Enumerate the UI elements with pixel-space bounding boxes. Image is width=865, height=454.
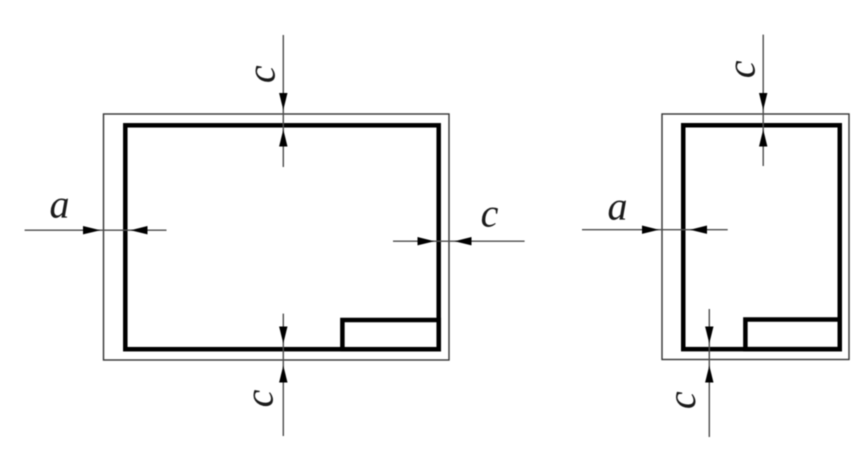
- title block in lower-right corner of right sheet frame: [745, 320, 839, 350]
- dimension line c (top margin, left sheet): [279, 35, 287, 167]
- svg-text:c: c: [237, 389, 282, 407]
- svg-text:a: a: [608, 184, 628, 229]
- label a (left margin, right sheet): [608, 184, 628, 229]
- dimension line a (left margin, right sheet): [582, 226, 728, 234]
- dimension line c (top margin, right sheet): [759, 35, 767, 166]
- title block in lower-right corner of left sheet frame: [342, 320, 438, 349]
- svg-text:c: c: [719, 60, 764, 78]
- svg-text:a: a: [50, 182, 70, 227]
- drawing frame (thick inner border) of left sheet: [125, 125, 438, 349]
- dimension line a (left margin, left sheet): [25, 226, 167, 234]
- dimension line c (right margin, left sheet): [393, 237, 525, 245]
- sheet outline (thin outer rectangle) of left A-size landscape sheet: [104, 114, 450, 360]
- label c (bottom margin, left sheet): [237, 389, 282, 407]
- label c (bottom margin, right sheet): [659, 391, 704, 409]
- svg-text:c: c: [659, 391, 704, 409]
- drawing frame (thick inner border) of right sheet: [683, 125, 840, 349]
- label c (right margin, left sheet): [481, 191, 499, 236]
- svg-text:c: c: [239, 65, 284, 83]
- sheet outline (thin outer rectangle) of right portrait sheet: [662, 114, 849, 360]
- svg-text:c: c: [481, 191, 499, 236]
- label c (top margin, left sheet): [239, 65, 284, 83]
- dimension line c (bottom margin, left sheet): [279, 314, 287, 436]
- label c (top margin, right sheet): [719, 60, 764, 78]
- label a (left margin, left sheet): [50, 182, 70, 227]
- dimension line c (bottom margin, right sheet): [705, 309, 713, 437]
